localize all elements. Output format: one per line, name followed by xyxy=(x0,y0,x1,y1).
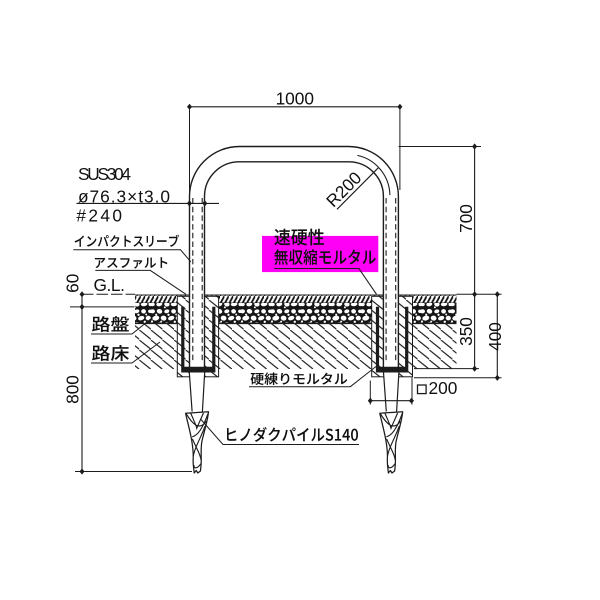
dimension 1000 top width xyxy=(187,88,402,203)
dimension 800 pile depth xyxy=(62,375,192,475)
svg-text:60: 60 xyxy=(62,274,82,293)
asphalt layer hatch xyxy=(135,295,457,303)
right pile neck xyxy=(384,372,399,411)
extension line from arch top xyxy=(399,146,482,148)
subgrade soil hatch xyxy=(135,324,457,370)
svg-text:350: 350 xyxy=(456,317,476,346)
svg-text:200: 200 xyxy=(429,378,458,398)
label impact sleeve xyxy=(75,235,180,247)
R200 leader xyxy=(337,168,378,210)
dimension square 200 footing width xyxy=(368,378,458,405)
magenta highlight quick-set mortar xyxy=(262,236,378,272)
right spiral pile xyxy=(380,412,403,473)
svg-text:SUS304: SUS304 xyxy=(78,164,131,184)
dimension 350 sleeve depth xyxy=(414,294,479,371)
svg-text:G.L.: G.L. xyxy=(94,275,125,295)
label hinodaku pile S140 xyxy=(227,427,358,442)
label subgrade xyxy=(92,345,129,361)
svg-text:400: 400 xyxy=(485,322,505,351)
left spiral pile xyxy=(186,412,209,473)
pipe bore hidden lines right leg xyxy=(386,198,396,362)
dimension 60 asphalt thickness xyxy=(62,274,134,472)
label quick-hardening xyxy=(274,229,324,246)
gravel roadbed layer xyxy=(135,303,457,324)
pipe bore hidden lines left leg xyxy=(193,198,202,362)
svg-text:800: 800 xyxy=(62,375,82,404)
label roadbed xyxy=(92,316,129,332)
R200 bend radius annotation arc xyxy=(357,155,390,195)
right impact sleeve xyxy=(376,307,408,373)
right footing mortar box xyxy=(372,296,413,377)
label non-shrink mortar xyxy=(274,249,376,265)
left footing mortar box xyxy=(177,296,218,377)
left impact sleeve xyxy=(181,307,215,373)
G.L. ground line xyxy=(82,293,135,295)
svg-text:ø76.3×t3.0: ø76.3×t3.0 xyxy=(78,187,170,207)
dimension 400 footing depth xyxy=(414,291,505,381)
label asphalt xyxy=(95,257,167,268)
label hard-kneaded mortar xyxy=(251,372,348,385)
pipe diameter callout xyxy=(77,200,220,206)
dimension 700 height xyxy=(456,143,477,297)
svg-text:700: 700 xyxy=(456,204,476,233)
left pile neck xyxy=(189,372,204,411)
pipe arch SUS304 bollard xyxy=(190,147,399,369)
svg-text:1000: 1000 xyxy=(276,88,314,108)
